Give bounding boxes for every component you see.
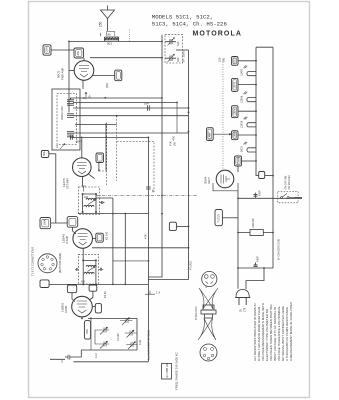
trimmer C3 [120,318,132,326]
tube 50C5 [74,61,94,81]
svg-text:12BE6: 12BE6 [241,120,244,128]
T1 secondary coil [84,272,94,273]
T2 slug arrow [88,200,96,205]
label 1X tick [145,291,155,294]
wire y359.3 [50,350,81,359]
volume label box [96,153,104,163]
tube 12AT6 [73,158,92,177]
wire plate to vertical [69,70,74,72]
svg-text:50C5: 50C5 [241,146,244,152]
svg-text:35W4: 35W4 [238,157,240,164]
svg-text:46A: 46A [43,151,46,156]
capacitor C20B [254,263,258,267]
IF=455 KC box [162,364,172,380]
svg-text:MODELS 51C1, 51C2,: MODELS 51C1, 51C2, [152,13,213,20]
svg-text:G5A: G5A [45,47,49,52]
wire y350 [81,349,137,351]
svg-text:164: 164 [144,102,149,106]
filament box texts [209,57,240,164]
vertical x125.3 [124,214,126,285]
wire end box to right bus [265,175,273,177]
T2 frame wires [83,194,96,212]
wire 12BA6 cathode [82,248,84,260]
svg-text:40MF: 40MF [259,189,262,196]
svg-text:IF=455 KC: IF=455 KC [165,362,169,378]
plate box right of 12BE6 [95,304,101,313]
wire filter bottom y268 [238,267,273,269]
T2 secondary coil [84,205,94,206]
T1 IF can dashed box [78,254,98,284]
on-off switch dashed box [278,192,298,203]
wire 50C5 cathode down to transformer [82,80,84,89]
T2 IF can dashed box [79,187,100,215]
T1 frame wires [83,260,96,284]
filament box 12BE6 [232,131,239,140]
wire audio line y98 [70,97,162,99]
wire audio line y108 [73,107,189,109]
wire resistor line y232.5 [238,232,273,234]
node bus2/vert junction [161,57,163,59]
wire vertical x55.8 [55,154,57,223]
production notes rotated block [253,302,293,361]
svg-text:450: 450 [76,51,80,56]
T1 slug arrow [88,267,96,272]
wire 12BA6 grid stub [73,227,77,234]
L4 slug arrow [60,144,65,150]
svg-text:.05: .05 [151,189,155,193]
svg-text:001: 001 [107,42,112,46]
wire 50C5 grid stub [93,74,115,76]
wire box to bus [238,60,256,62]
svg-text:80: 80 [108,33,112,37]
wire rectifier output vertical x238 [237,191,239,289]
vertical link x177 [176,103,178,134]
loop antenna coil core [105,37,119,40]
heater hairpin 12BA6 [247,98,256,102]
wire 12BA6 plate to box [93,238,96,240]
svg-text:FILTER: FILTER [218,214,221,223]
svg-text:IF AMP: IF AMP [66,235,69,244]
svg-text:10-160: 10-160 [117,333,120,341]
svg-text:OSC: OSC [86,329,89,334]
svg-text:150: 150 [99,21,103,27]
wire connector to grid box [51,49,74,51]
transformer primary winding [67,98,74,105]
cap L5 bottom left [65,355,73,360]
osc coil box [84,321,90,340]
svg-text:12BE6: 12BE6 [61,303,65,312]
svg-text:3W: 3W [222,58,226,62]
svg-text:ALL ALIGNMENT AT 455KC: ALL ALIGNMENT AT 455KC [148,330,151,360]
output transformer dashed box T5 [57,94,77,145]
filament box 12BA6 [232,106,239,118]
wire switch to edge [294,197,302,199]
T2 side capacitor [100,201,105,204]
volume control vertical wire [105,124,107,170]
svg-text:K1 B+: K1 B+ [103,290,107,298]
dashed AVC line [99,123,107,185]
svg-text:47K: 47K [144,234,148,239]
svg-text:A MEASUREMENT MADE W. GANG OPE: A MEASUREMENT MADE W. GANG OPEN [289,302,293,361]
svg-text:12AT6: 12AT6 [234,81,237,88]
dashed shield vertical x116.7 [116,116,118,181]
bottom socket view [200,344,217,361]
svg-text:.0047: .0047 [75,140,82,144]
T2 primary coil [86,198,96,199]
small tick left of label [100,33,102,36]
wire volume box down [98,163,100,171]
svg-text:B- CHASSIS GND: B- CHASSIS GND [277,239,281,260]
osc grid box [89,285,97,291]
svg-text:420: 420 [176,41,180,46]
vertical rail x148.4 [147,137,149,361]
filament box 50C5 [232,57,239,66]
wire y213.6 [78,213,148,215]
wire y361.8 bottom [73,361,148,363]
svg-text:12BA6: 12BA6 [234,107,237,115]
wire antenna to coil [107,19,109,32]
svg-text:278: 278 [244,307,247,312]
capacitor on rail x148.4 [146,187,151,189]
svg-text:47K: 47K [172,136,176,141]
label box bottom left [40,280,49,288]
svg-text:12AT6: 12AT6 [241,68,244,76]
det label box 46A [41,151,49,158]
dial lamp dashed tap line [222,62,224,170]
trimmer C4 [125,330,137,338]
svg-text:DET AMP: DET AMP [67,178,70,189]
tube 12BA6 [73,229,93,249]
wire box to B+ [176,225,188,227]
power cord lattice [199,288,218,309]
connector box G5A [43,45,51,55]
svg-text:B+: B+ [88,94,92,98]
T1 side capacitor [99,268,104,271]
transformer secondary winding [67,114,74,118]
svg-text:2W: 2W [173,142,177,146]
wire line y133 [74,132,189,134]
wire box to grid box [51,222,68,224]
wire line y124.4 [75,123,117,125]
tuning gang dashed box [165,35,183,63]
svg-text:LAMP: LAMP [209,132,212,139]
svg-text:12BA6: 12BA6 [241,95,244,103]
svg-text:12BA6: 12BA6 [62,234,66,243]
filament box 35W4 [235,156,242,166]
wire FILTER to rail [222,217,238,219]
AC plug [236,290,249,298]
svg-text:ON VOLUME: ON VOLUME [288,175,291,190]
T1 left capacitor [75,268,78,271]
heater hairpin 12BE6 [247,123,256,127]
heater hairpin 12AT6 [247,72,256,76]
node rail joints [148,260,150,262]
wire y318.4 [88,317,137,319]
svg-text:FREQ. RANGE 535-1605 KC: FREQ. RANGE 535-1605 KC [175,352,179,390]
svg-text:PWR AMP: PWR AMP [61,67,65,80]
wire bus2 to tuning cap [90,57,162,59]
svg-text:35W4: 35W4 [204,176,208,184]
wire 12BE6 plate [92,306,95,308]
svg-text:T1 & T2 CONNECTIONS: T1 & T2 CONNECTIONS [31,247,35,276]
svg-text:47 (AV): 47 (AV) [189,261,193,270]
svg-text:50C5: 50C5 [57,70,61,78]
svg-text:150: 150 [218,57,222,62]
capacitor C20A [255,193,257,199]
svg-text:1 X: 1 X [156,291,160,295]
capacitor on y137.4 [71,135,73,140]
wire 12BA6 screen line y247.8 [92,247,189,249]
wire 35W4 top to filament box [237,166,239,172]
dashed AVC link [117,141,154,192]
svg-text:INTERLOCK: INTERLOCK [195,306,198,320]
socket connections diagram [38,254,57,273]
vertical B+ rail x188.5 [149,50,189,279]
svg-text:K2 100: K2 100 [105,231,109,240]
dash-dot ground line y195.5 [96,195,197,197]
svg-text:1000 2W: 1000 2W [252,218,255,228]
svg-text:100K: 100K [43,219,47,225]
svg-text:420: 420 [176,57,180,62]
filament bus top [256,47,273,268]
dial lamp label box [207,128,214,141]
variable capacitor C1B [165,54,176,62]
svg-text:VOICE COIL: VOICE COIL [61,105,64,120]
interlock block [203,305,214,310]
wire osc vertical left [91,318,98,350]
wire dashes to rail [113,260,148,262]
wire 12AT6 plate diagonal [89,174,95,179]
svg-text:40MF: 40MF [257,255,260,262]
wire vertical x69 bus1 down to audio lines [68,41,70,112]
svg-text:2-14: 2-14 [95,353,98,358]
T1 primary coil [86,265,96,266]
wire 12AT6 cathode [82,176,84,186]
wire cord drop left [246,268,264,289]
wire y284.4 [49,283,148,285]
output transformer outer box [52,89,80,150]
svg-text:RECT: RECT [208,177,211,184]
vertical rail x162 [148,35,162,277]
plate box right of 12BA6 [96,233,104,242]
IF label box left of 12BA6 [40,218,51,229]
svg-text:B+ 105V: B+ 105V [182,51,186,62]
switch contacts [281,197,283,199]
trimmer C2B [98,341,109,349]
svg-text:(50): (50) [105,83,109,88]
capacitor C12 on y108 [148,105,150,110]
screen label box [169,222,176,230]
heater hairpin 50C5 [247,148,256,152]
resistor cathode 12AT6 [81,186,86,192]
filament box 12AT6 [232,78,239,91]
wire T2 to vertical x112.9 [96,198,113,285]
FILTER label box [215,210,222,226]
wire lamp box to 12BE6 filament box [213,133,231,135]
wire bus1 AVC/grid line [69,40,162,42]
filter resistor [250,230,263,236]
pilot lamp socket [202,271,217,286]
svg-text:3-30: 3-30 [139,340,142,345]
tube 35W4 rectifier [216,170,234,188]
node bus1/vert junction [161,41,163,43]
grid box 12BE6 [67,285,76,293]
wire filter top y198.3 [238,197,302,199]
svg-text:47K: 47K [169,141,173,146]
wire audio line y102.5 [73,102,177,104]
wire line y115.7 [73,115,189,117]
wire gang to B+ rail [176,49,189,51]
svg-text:(BOTTOM VIEW): (BOTTOM VIEW) [58,253,62,273]
tube 12BE6 [72,296,93,317]
trimmer C5 [126,342,137,350]
header model text [152,13,228,27]
wire 12BE6 cathode down [81,317,83,319]
wire 12BE6 grid stubs [72,291,93,301]
B+ arrow at output transformer [85,92,87,99]
svg-text:51C3, 51C4, Ch. HS-226: 51C3, 51C4, Ch. HS-226 [152,21,228,28]
svg-text:12AT6: 12AT6 [62,178,66,187]
coil label box (vertical) [115,70,122,81]
node B+ joints [188,112,190,114]
svg-text:420: 420 [81,281,86,284]
svg-text:50C5: 50C5 [235,57,237,63]
grid box 12BA6 [67,217,78,228]
wire line y137.4 [70,136,148,138]
antenna symbol [101,10,115,19]
svg-text:CONV: CONV [65,305,68,313]
wire bus left bottom [256,172,259,176]
wire 12AT6 grid top [81,137,83,158]
wire 46A to vertical [49,153,56,155]
svg-text:MOTOROLA: MOTOROLA [193,30,243,37]
filament end box [259,172,265,179]
grid label box 50C5 top [74,48,84,58]
trimmer C2A [98,327,109,335]
wire vertical x137 [136,318,138,350]
dotted riser above bus [129,30,131,42]
svg-text:420: 420 [84,196,89,199]
rect below 35W4 [213,183,238,191]
svg-text:12BE6: 12BE6 [235,130,237,138]
transformer tertiary winding [67,131,74,136]
variable capacitor C1A [165,38,176,46]
